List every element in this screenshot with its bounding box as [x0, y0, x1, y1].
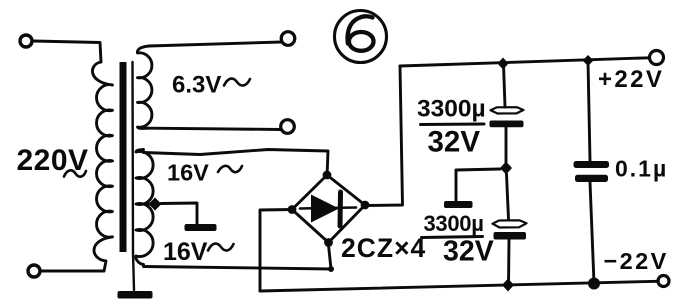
node: bridge top [323, 171, 332, 180]
bridge rectifier U1 [292, 175, 365, 243]
label 6.3V~ [172, 72, 250, 99]
node: bridge bottom [324, 238, 333, 247]
label 220V [17, 144, 89, 177]
wire [507, 240, 510, 285]
label 16V~ (bottom) [163, 238, 234, 266]
wire [41, 270, 104, 273]
node: junction [502, 279, 514, 292]
terminal: AC input top [20, 35, 32, 47]
svg-text:32V: 32V [428, 126, 481, 159]
wire [34, 41, 102, 62]
svg-text:3300µ: 3300µ [424, 211, 484, 236]
wire [141, 203, 151, 206]
wire [507, 174, 509, 219]
node: junction [500, 162, 512, 175]
node: junction [498, 58, 509, 70]
wire [144, 150, 329, 173]
node: junction [588, 278, 600, 290]
wire: +22V rail [400, 58, 649, 66]
wire: -22V rail [260, 281, 658, 291]
figure number 6 [335, 11, 387, 63]
svg-text:2CZ×4: 2CZ×4 [341, 233, 426, 263]
svg-text:+22V: +22V [598, 66, 664, 93]
transformer secondary 6.3V winding [137, 46, 152, 128]
svg-text:6.3V: 6.3V [172, 72, 221, 99]
ground (core) [118, 252, 153, 299]
capacitor C1 3300µ/32V [490, 107, 524, 127]
wire [260, 210, 292, 292]
svg-text:32V: 32V [443, 236, 494, 268]
wire [456, 169, 500, 201]
transformer core [120, 62, 134, 252]
capacitor C3 0.1µ [574, 161, 610, 182]
terminal: -22V [658, 276, 669, 287]
svg-text:0.1µ: 0.1µ [615, 156, 668, 182]
node: bridge left [288, 205, 297, 214]
label 16V~ (top) [167, 160, 242, 186]
wire [149, 128, 281, 129]
svg-text:16V: 16V [167, 160, 209, 186]
node: junction [328, 266, 334, 272]
wire [161, 203, 197, 224]
label 3300µ/32V (C1) [417, 96, 486, 159]
wire [588, 61, 590, 161]
wire [590, 182, 594, 283]
svg-text:3300µ: 3300µ [417, 96, 486, 123]
terminal: AC input bottom [28, 265, 40, 277]
svg-text:220V: 220V [17, 144, 89, 177]
wire [505, 128, 508, 169]
ground (center tap) [185, 224, 217, 231]
wire [144, 267, 332, 270]
svg-text:16V: 16V [163, 238, 208, 266]
node: junction [583, 55, 594, 66]
terminal: +22V [650, 51, 664, 65]
transformer secondary 16V windings [136, 150, 153, 265]
label 3300µ/32V (C2) [422, 211, 494, 268]
node: bridge right [361, 201, 370, 210]
ground (midpoint) [444, 201, 473, 208]
wire [329, 245, 332, 269]
transformer T1 primary winding [92, 62, 112, 271]
svg-text:−22V: −22V [604, 248, 669, 274]
wire [504, 64, 506, 107]
wire [149, 42, 281, 46]
capacitor C2 3300µ/32V [493, 220, 527, 239]
terminal: 6.3V bottom [281, 120, 295, 134]
wire [365, 66, 403, 206]
terminal: 6.3V top [281, 32, 295, 46]
node: center tap [149, 198, 162, 211]
